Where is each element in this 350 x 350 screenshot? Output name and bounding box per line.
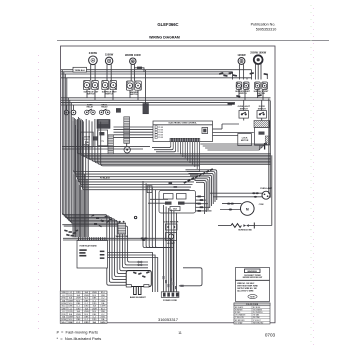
svg-text:OVEN LAMP: OVEN LAMP (260, 187, 273, 190)
svg-text:# = Fast-moving Parts: # = Fast-moving Parts (57, 330, 98, 335)
wire SU1 to switch S1 (90, 64, 92, 80)
svg-text:N2-6: N2-6 (76, 316, 80, 318)
wire SU3 branch with indicator tag (134, 67, 144, 72)
wire bus C lower group (73, 117, 200, 190)
oven lamp assembly dark module (254, 121, 271, 128)
svg-text:L1-2: L1-2 (62, 295, 66, 297)
svg-text:21RD: 21RD (76, 292, 81, 294)
clock assembly dark module (97, 120, 110, 129)
svg-text:N2-6: N2-6 (69, 303, 73, 305)
connector between lock and transformer (93, 137, 97, 141)
left vertical wire bus (62, 70, 73, 224)
terminal block small dark box (116, 108, 120, 112)
latch motor element tall (124, 117, 130, 144)
svg-text:WIRING DIAGRAM: WIRING DIAGRAM (149, 35, 180, 39)
wire S7 to lamp module (243, 118, 245, 120)
svg-text:L1-2: L1-2 (62, 311, 66, 313)
junction node circle (134, 216, 136, 218)
svg-text:21RD: 21RD (84, 306, 89, 308)
wire SU3 to switch S3 (130, 64, 132, 81)
wire bundle B bends into bus A (78, 119, 200, 166)
transformer T1 box (98, 130, 108, 146)
svg-text:N2-6: N2-6 (76, 300, 80, 302)
wire U1 to lock motor (213, 135, 238, 137)
infinite switch S5 (255, 82, 268, 89)
splice blobs above bake element (133, 271, 150, 278)
wire shield blobs on cord bundle (163, 276, 177, 289)
svg-text:5995353310: 5995353310 (256, 27, 277, 31)
svg-text:BK BLACK: BK BLACK (235, 306, 244, 309)
svg-text:POWER CORD: POWER CORD (163, 300, 178, 302)
convection motor M1 (241, 202, 265, 216)
wire switch S5 drop (257, 89, 259, 97)
svg-text:OR ORANGE: OR ORANGE (235, 314, 246, 317)
power cord terminal block (161, 292, 179, 298)
svg-text:1500W: 1500W (105, 52, 114, 56)
svg-text:P2 BLACK: P2 BLACK (100, 177, 111, 180)
title block: heading rule (57, 40, 329, 42)
svg-text:WR WH-RED: WR WH-RED (253, 322, 264, 324)
svg-text:14WH: 14WH (76, 314, 82, 316)
svg-text:14WH: 14WH (84, 295, 90, 297)
svg-text:L1-2: L1-2 (76, 306, 80, 308)
svg-text:14WH: 14WH (61, 319, 67, 321)
svg-text:L1-2: L1-2 (76, 322, 80, 324)
right margin perforation dots (311, 5, 314, 345)
svg-text:14WH: 14WH (100, 306, 106, 308)
bake element terminals (126, 285, 149, 287)
surface unit SU1 left-front (89, 51, 98, 64)
svg-text:14WH: 14WH (68, 300, 74, 302)
plug contacts left margin (64, 105, 76, 115)
wire bundle U1 connector drops (152, 142, 200, 172)
quick connect terminals below switches (228, 94, 262, 105)
svg-text:WARM 100W: WARM 100W (125, 53, 141, 57)
svg-text:Publication No.: Publication No. (251, 23, 276, 27)
wire switch S2 drop (104, 90, 106, 98)
relay board right exit stubs (108, 253, 158, 293)
wire grid vertical runs (73, 121, 88, 237)
infinite switch S5 label (254, 90, 270, 95)
svg-text:21RD: 21RD (84, 322, 89, 324)
disconnect plug contacts P3 (138, 261, 143, 266)
svg-text:SWITCH: SWITCH (130, 94, 138, 96)
svg-text:21RD: 21RD (101, 300, 106, 302)
U1 left pin list (155, 126, 164, 139)
infinite switch S4 (236, 82, 249, 89)
bake element inner legs (134, 287, 141, 295)
warmer element R2 zigzag (218, 224, 241, 228)
thermal fuse F1 (238, 223, 272, 232)
wire right bend into S5 (233, 70, 268, 80)
svg-text:2500W 1600W: 2500W 1600W (250, 51, 267, 54)
wire group U1 to latch assembly (200, 143, 266, 151)
wire SU5 to switch S5 (254, 64, 256, 80)
svg-text:CONV: CONV (259, 204, 265, 206)
svg-text:TERM BLK: TERM BLK (75, 70, 86, 72)
resistor R1 hatched (108, 135, 113, 154)
svg-text:21RD: 21RD (76, 308, 81, 310)
wire switch S4 drop (238, 89, 240, 97)
svg-text:L1-2: L1-2 (92, 300, 96, 302)
U1 relay K3 small box (202, 128, 208, 134)
svg-text:L1-2: L1-2 (84, 319, 88, 321)
svg-text:GY GRAY: GY GRAY (235, 321, 243, 324)
door lock switch box (81, 132, 93, 147)
svg-text:2400W: 2400W (89, 51, 98, 55)
svg-text:14WH: 14WH (100, 321, 106, 324)
svg-text:L1-2: L1-2 (69, 292, 73, 294)
splice junction blobs upper (91, 214, 112, 227)
wire to convection motor (220, 203, 242, 211)
svg-text:L1-2: L1-2 (101, 314, 105, 316)
svg-text:14WH: 14WH (76, 298, 82, 300)
svg-text:N2-6: N2-6 (101, 308, 105, 310)
latch assembly box (255, 128, 270, 150)
svg-text:L1-2: L1-2 (84, 303, 88, 305)
svg-text:LOCK: LOCK (84, 139, 90, 141)
svg-text:N2-6: N2-6 (69, 319, 73, 321)
latch motor M2 circle (124, 143, 130, 153)
double line break relay module K4 (159, 191, 196, 214)
surface unit SU3 center warm zone (125, 53, 141, 64)
svg-text:N2-6: N2-6 (92, 311, 96, 313)
connector blobs into DLB module (196, 196, 212, 212)
wire neutral return right (179, 268, 202, 287)
svg-text:N2-6: N2-6 (92, 295, 96, 297)
surface unit SU5 right-front dual (250, 51, 267, 64)
svg-text:N2-6: N2-6 (84, 298, 88, 300)
wire color code table right (234, 303, 270, 324)
wire U1 to latch box (213, 132, 254, 134)
wire L2b top bus (61, 77, 252, 79)
svg-text:DOOR: DOOR (84, 137, 91, 139)
svg-text:WARM ZONE: WARM ZONE (116, 235, 129, 238)
svg-text:21RD: 21RD (101, 316, 106, 318)
svg-text:21RD: 21RD (61, 298, 66, 300)
svg-text:21RD: 21RD (61, 314, 66, 316)
wire L6 bus below switches (61, 104, 232, 106)
svg-text:RELAY: RELAY (87, 106, 94, 109)
svg-text:DISCONNECT POWER: DISCONNECT POWER (244, 275, 261, 277)
svg-text:SURFACE IND: SURFACE IND (238, 229, 252, 232)
wire L2 top bus (61, 71, 233, 73)
surface unit SU2 left-rear (105, 52, 114, 64)
svg-text:14WH: 14WH (92, 308, 98, 310)
svg-text:NOTE: NOTE (250, 296, 254, 298)
hi-limit thermostat (166, 233, 177, 246)
wire L4 bus below switches (61, 99, 271, 101)
wire switch S3 drop (129, 90, 131, 98)
connector pair on oven feed lines (147, 182, 177, 192)
power relay board PRB (77, 241, 108, 269)
svg-text:L1-2: L1-2 (101, 298, 105, 300)
svg-text:OVEN RELAY BOARD: OVEN RELAY BOARD (79, 245, 97, 248)
terminal block P1 (73, 67, 87, 72)
wire L2a top bus (61, 73, 231, 75)
svg-text:MOTOR: MOTOR (241, 140, 249, 142)
wire bus A to right edge (200, 154, 271, 165)
svg-text:LOCK: LOCK (242, 137, 248, 139)
wire runs above relay board to power cord (63, 237, 173, 292)
contact pair K1 bake relay (85, 104, 96, 115)
infinite switch S1 label (84, 90, 100, 95)
bake element loop (126, 271, 151, 287)
svg-text:RELAY: RELAY (101, 106, 108, 109)
wire L3 bus below switches (61, 97, 271, 99)
svg-text:GLEF366C: GLEF366C (157, 22, 178, 27)
infinite switch S2 (102, 81, 117, 90)
splice junction blobs lower (64, 229, 79, 236)
wire drop to S8 (261, 100, 263, 110)
svg-text:SWITCH: SWITCH (239, 93, 247, 95)
wire bundle center descent (143, 181, 174, 248)
wire S8 to latch module (261, 118, 263, 120)
infinite switch S3 (127, 81, 142, 90)
warning notice box (236, 268, 270, 302)
left margin perforation dots (38, 55, 40, 335)
wire drop to S7 (243, 100, 245, 110)
wiring schedule table left (60, 291, 107, 324)
svg-text:SWITCH: SWITCH (87, 93, 95, 95)
svg-text:21RD: 21RD (92, 303, 97, 305)
wires left bus to U1 pins (114, 127, 154, 137)
wire nested bends to oven circuits (186, 170, 217, 214)
wire grid horizontal runs bending down to oven feed bundle (62, 215, 148, 286)
svg-text:316053317: 316053317 (158, 317, 179, 322)
svg-text:N2-6: N2-6 (101, 292, 105, 294)
wire SU2 to switch S2 (106, 64, 108, 80)
svg-text:N2-6: N2-6 (62, 306, 66, 308)
relay board top pins (79, 237, 105, 240)
svg-text:14WH: 14WH (92, 292, 98, 294)
wire bundle to power cord (164, 205, 177, 292)
svg-text:WARNING: WARNING (247, 270, 257, 273)
infinite switch S4 label (235, 90, 251, 95)
svg-text:14WH: 14WH (68, 316, 74, 318)
svg-text:L1-2: L1-2 (92, 316, 96, 318)
oven sensor RTD (164, 221, 179, 230)
diagonal quick-connect row on oven feeds (183, 168, 213, 183)
door switch S8 (257, 106, 266, 118)
svg-text:N2-6: N2-6 (62, 322, 66, 324)
svg-text:1200W: 1200W (237, 53, 246, 57)
wire pair upper left runs (62, 143, 150, 149)
svg-text:BAKE ELEMENT: BAKE ELEMENT (130, 296, 147, 299)
svg-text:21RD: 21RD (92, 319, 97, 321)
infinite switch S1 (84, 81, 99, 90)
svg-text:SWITCH: SWITCH (105, 93, 113, 95)
svg-text:N2-6: N2-6 (84, 314, 88, 316)
oven light switch S7 (238, 106, 251, 118)
wire and fuse drop to oven vent box (143, 70, 149, 114)
wire L1 top bus (61, 69, 73, 71)
wire L5 bus below switches (61, 102, 235, 104)
svg-text:L1-2: L1-2 (69, 308, 73, 310)
oven lamp G1 (260, 187, 273, 199)
svg-text:M: M (246, 207, 249, 211)
infinite switch S3 label (129, 91, 139, 96)
svg-text:* = Non-Illustrated Parts: * = Non-Illustrated Parts (57, 336, 102, 341)
wire SU4 to switch S4 (238, 64, 240, 79)
svg-text:P4 RED: P4 RED (83, 143, 90, 146)
U1 bottom connector strip (170, 138, 200, 141)
quick connect terminals top right (219, 72, 268, 77)
svg-text:ALLOW 80°C WIRE: ALLOW 80°C WIRE (237, 290, 254, 293)
surface unit SU4 right-rear (237, 53, 246, 65)
svg-text:14WH: 14WH (84, 311, 90, 313)
svg-text:12BK: 12BK (68, 322, 73, 324)
contact pair K2 broil relay (99, 105, 110, 115)
svg-text:0703: 0703 (265, 333, 276, 338)
svg-text:TN TAN: TN TAN (253, 314, 260, 317)
svg-text:BEFORE SERVICING UNIT: BEFORE SERVICING UNIT (243, 277, 262, 279)
svg-text:11: 11 (178, 331, 182, 335)
wire switch S1 drop (86, 90, 88, 98)
lock motor box (238, 134, 252, 146)
diagram border frame (61, 46, 276, 323)
wire stubs at oven relays (148, 199, 200, 203)
infinite switch S2 label (102, 90, 118, 95)
wire to oven lamp G1 (210, 192, 262, 197)
right edge vertical bus (269, 99, 272, 226)
wire stub right components (213, 128, 223, 130)
electronic oven control U1 (153, 121, 213, 142)
warmer element E3 hatched (116, 221, 129, 238)
svg-text:21RD: 21RD (68, 295, 73, 297)
svg-text:14WH: 14WH (61, 303, 67, 305)
svg-text:21RD: 21RD (68, 311, 73, 313)
